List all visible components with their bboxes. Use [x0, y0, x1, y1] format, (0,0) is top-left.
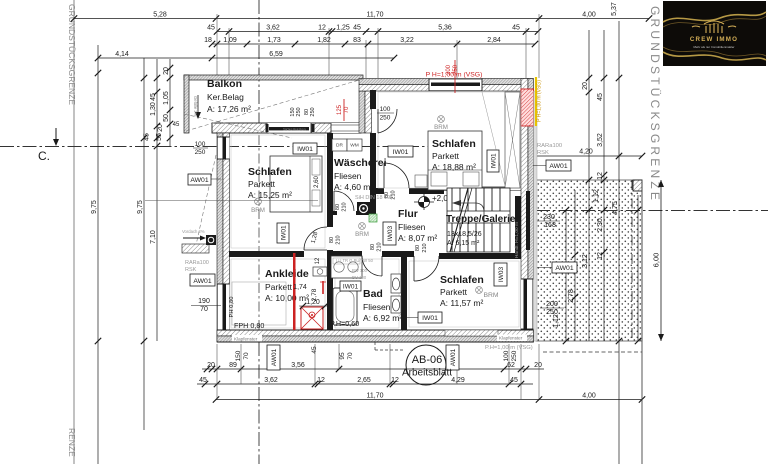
- vertical dim 9,75 at x=98: [91, 45, 101, 464]
- room finish outline Ankleide: [231, 259, 325, 328]
- svg-text:Parkett: Parkett: [440, 287, 468, 297]
- svg-text:2,84: 2,84: [487, 37, 501, 44]
- BRM symbol Schlafen2: [434, 116, 448, 131]
- terrace dashed line below: [543, 351, 642, 353]
- svg-text:1,12: 1,12: [553, 314, 560, 328]
- svg-text:80: 80: [329, 237, 335, 243]
- vanity with two sinks: [331, 256, 362, 278]
- svg-text:210: 210: [342, 202, 348, 211]
- svg-text:2,78: 2,78: [568, 289, 575, 303]
- window left wall upper (frame): [217, 137, 230, 160]
- section line vertical x=259 top: [258, 0, 260, 123]
- svg-text:100: 100: [195, 141, 206, 148]
- shaft symbol (black box with circle): [357, 202, 370, 215]
- vertical dim x=604: [597, 30, 607, 341]
- svg-text:1,73: 1,73: [267, 37, 281, 44]
- svg-text:Treppe/Galerie: Treppe/Galerie: [446, 214, 516, 225]
- svg-text:GRUNDSTÜCKSGRENZE: GRUNDSTÜCKSGRENZE: [67, 4, 77, 105]
- door reveal blocks balcony: [266, 124, 315, 132]
- label IW01 Schlafen2 left: [387, 145, 389, 147]
- section line right horizontal: [536, 210, 768, 212]
- svg-text:6,00: 6,00: [652, 253, 661, 268]
- svg-text:250: 250: [546, 309, 558, 316]
- svg-text:80: 80: [370, 244, 376, 250]
- room label Bad: [363, 288, 402, 323]
- label 95/70 rot: [339, 352, 354, 360]
- BRM symbol Schlafen3: [476, 287, 499, 299]
- svg-text:2,60: 2,60: [314, 176, 320, 188]
- svg-text:P.H=1,00 m (VSG): P.H=1,00 m (VSG): [485, 345, 533, 351]
- svg-text:3,56: 3,56: [291, 362, 305, 369]
- stairs break diagonal: [450, 188, 472, 252]
- section line vertical terrace x=632: [631, 180, 633, 341]
- nightstand Schlafen2: [415, 175, 427, 187]
- vertical dim 9,75 at x=144: [137, 58, 151, 430]
- red shower: [301, 307, 323, 329]
- toilet 2: [391, 296, 401, 313]
- door Schlafen3 (arc): [414, 256, 439, 281]
- section line C arrow: [53, 128, 59, 146]
- stairs top edge line: [440, 187, 521, 191]
- label Klapfenster right: [497, 335, 527, 342]
- dimension chain top row3 18/1,09/1,73/1,82/83/3,22/2,84: [204, 37, 538, 47]
- svg-text:GRUNDSTÜCKSGRENZE: GRUNDSTÜCKSGRENZE: [648, 6, 662, 203]
- svg-text:Schlafen: Schlafen: [440, 274, 484, 286]
- BRM symbol Flur: [355, 223, 369, 238]
- svg-text:A: 11,57 m²: A: 11,57 m²: [440, 298, 483, 308]
- wall right red section (VSG): [521, 89, 534, 126]
- svg-text:20: 20: [207, 362, 215, 369]
- svg-text:125: 125: [337, 104, 343, 115]
- label 190/70 left: [191, 298, 221, 313]
- door Bad (arc): [362, 256, 382, 276]
- svg-text:BRM: BRM: [251, 207, 265, 214]
- svg-text:100: 100: [380, 106, 391, 113]
- BRM symbol Schlafen1: [251, 198, 265, 214]
- gallery glazing bar right: [526, 191, 530, 250]
- svg-text:13x18,5/26: 13x18,5/26: [447, 231, 482, 238]
- door size 80/210 Schlafen1: [329, 235, 342, 244]
- svg-text:2,65: 2,65: [357, 377, 371, 384]
- svg-text:2,30: 2,30: [597, 218, 604, 232]
- svg-text:RARa100: RARa100: [537, 143, 562, 149]
- label IW03 Flur side: [383, 222, 396, 245]
- svg-text:Bad: Bad: [363, 288, 383, 300]
- svg-text:45: 45: [597, 93, 604, 101]
- label RARa100 RSK right: [537, 143, 562, 156]
- label 230/168: [536, 214, 560, 229]
- room finish outline Schlafen1: [231, 135, 325, 248]
- dimension chain top row4 4,14 / 6,59: [95, 51, 397, 61]
- void diagonal line: [482, 92, 505, 186]
- wardrobe outline Ankleide: [232, 282, 286, 325]
- dimension chain top row2 45/3,62/12/1,25/45: [207, 24, 541, 34]
- toilet 1: [391, 274, 401, 293]
- svg-text:Fliesen: Fliesen: [334, 171, 362, 181]
- room label Treppe/Galerie: [446, 214, 516, 247]
- svg-text:70: 70: [347, 352, 354, 360]
- svg-text:Schlafen: Schlafen: [248, 166, 292, 178]
- label IW01 mid box: [295, 140, 297, 142]
- svg-text:RENZE: RENZE: [67, 428, 77, 457]
- door size 80/210 Flur-Bad: [370, 242, 383, 251]
- svg-text:IW01: IW01: [422, 315, 438, 322]
- window balcony door 269-309: [267, 123, 311, 133]
- room label Flur: [398, 208, 437, 243]
- svg-text:Ankleide: Ankleide: [265, 268, 309, 280]
- svg-text:Arbeitsblatt: Arbeitsblatt: [402, 368, 452, 379]
- svg-text:AW01: AW01: [450, 348, 457, 366]
- red fitting mark: [320, 281, 326, 294]
- window right wall (frame): [521, 279, 534, 330]
- dimension chain bottom rowC 11,70 / 4,00: [213, 392, 645, 402]
- svg-text:WM: WM: [350, 143, 359, 149]
- svg-text:12: 12: [597, 172, 604, 180]
- label AW01 bottom right vert: [446, 345, 459, 370]
- svg-text:Mehr als nur Immobilienmakler: Mehr als nur Immobilienmakler: [693, 45, 734, 49]
- canopy hatched band left: [182, 229, 216, 253]
- dimension chain bottom rowB 45/3,62/12/2,65/12/4,29/45: [197, 377, 533, 387]
- wall V2 corridor part: [370, 190, 376, 215]
- window label 100/250 left: [193, 141, 208, 156]
- wall balcony left rail: [184, 75, 189, 133]
- terrace stipple area: [536, 180, 642, 341]
- label 100/250 bottom rot: [503, 350, 518, 361]
- door size 80/210 Waescherei: [335, 202, 348, 211]
- svg-text:210: 210: [377, 242, 383, 251]
- svg-text:45: 45: [353, 24, 361, 31]
- leader line y=200: [145, 200, 318, 202]
- wall V2 upper stub: [370, 90, 376, 109]
- red wall Ankleide: [293, 253, 296, 330]
- svg-text:4,20: 4,20: [579, 149, 593, 156]
- red dim 200/250 top window: [446, 60, 459, 93]
- section line vertical x=259 bottom: [258, 342, 260, 464]
- window balcony 333-358 (new, red 125/70): [331, 123, 360, 133]
- door label 100/250 Schlafen2: [377, 106, 394, 122]
- svg-text:AW01: AW01: [193, 278, 211, 285]
- svg-text:50: 50: [163, 114, 170, 122]
- label 200/250 terrace: [540, 301, 564, 316]
- room finish outline Schlafen3: [409, 261, 519, 327]
- logo crew inno box: [663, 1, 766, 66]
- label IW01 Schlafen3: [404, 312, 442, 323]
- svg-text:AW01: AW01: [271, 348, 278, 366]
- svg-text:PH 0,80: PH 0,80: [229, 297, 235, 318]
- label IW01 in Bad: [340, 281, 361, 291]
- svg-text:250: 250: [296, 107, 302, 116]
- wall balcony top rail: [184, 75, 363, 80]
- wall right outer cladding strip: [534, 91, 538, 341]
- label AW01 bottom left vert: [267, 345, 280, 370]
- wall stub stairs right: [515, 196, 521, 253]
- svg-text:95: 95: [339, 352, 346, 360]
- vertical dim x=638: [635, 195, 641, 344]
- svg-text:4,00: 4,00: [582, 11, 596, 18]
- svg-text:DU 100: DU 100: [352, 275, 367, 280]
- label AW01 left lower: [190, 274, 215, 286]
- svg-text:A: 10,00 m²: A: 10,00 m²: [265, 293, 309, 303]
- svg-text:FPH 0,80: FPH 0,80: [234, 321, 264, 330]
- label IW01 on section line: [293, 143, 317, 154]
- terrace pillar top right: [633, 180, 642, 191]
- label IW01 Schlafen2 vertical: [487, 150, 499, 172]
- room label Schlafen3: [440, 274, 484, 308]
- bathtub: [333, 288, 357, 325]
- svg-text:CREW IMMO: CREW IMMO: [690, 36, 738, 43]
- svg-text:70: 70: [344, 106, 350, 113]
- green hatched square: [369, 214, 377, 222]
- svg-text:11,70: 11,70: [367, 392, 384, 399]
- svg-text:2,78: 2,78: [311, 288, 318, 301]
- svg-text:Klapfenster: Klapfenster: [234, 337, 258, 342]
- wall right (x521-533.5): [521, 79, 534, 343]
- wall bottom (y330-342): [217, 330, 534, 342]
- svg-text:A: 8,07 m²: A: 8,07 m²: [398, 233, 437, 243]
- label IW01 Waescherei: [388, 146, 413, 157]
- room finish outline Bad: [335, 259, 399, 328]
- door Schlafen1 (arc): [304, 227, 327, 250]
- property line left (Grundstuecksgrenze): [73, 0, 75, 464]
- wardrobe Schlafen2 (X-rect): [505, 92, 520, 188]
- room label Schlafen1: [248, 166, 292, 200]
- svg-text:Wäscherei: Wäscherei: [334, 157, 387, 169]
- stairs walking line with arrow: [452, 200, 484, 252]
- svg-text:C.: C.: [38, 149, 50, 163]
- room label Schlafen2: [432, 138, 476, 172]
- svg-text:55: 55: [156, 133, 163, 141]
- balcony window size labels 80/250: [304, 107, 316, 116]
- svg-text:45: 45: [512, 24, 520, 31]
- grey micro text bath: [336, 258, 374, 280]
- vertical dim x=589: [582, 30, 600, 341]
- room label Waescherei: [334, 157, 387, 192]
- bed Schlafen2 with label block: [428, 131, 482, 190]
- svg-text:IW01: IW01: [343, 284, 359, 291]
- svg-text:12: 12: [597, 252, 604, 260]
- svg-text:6,59: 6,59: [269, 51, 283, 58]
- svg-text:5,36: 5,36: [438, 24, 452, 31]
- svg-text:3,52: 3,52: [597, 133, 604, 147]
- svg-text:1,05: 1,05: [163, 91, 170, 105]
- svg-text:P.H=0,60: P.H=0,60: [330, 319, 359, 328]
- door Waescherei (arc): [334, 191, 354, 211]
- svg-text:Gefälle 2%: Gefälle 2%: [193, 96, 198, 117]
- svg-text:5,37: 5,37: [611, 2, 618, 16]
- svg-text:3,22: 3,22: [400, 37, 414, 44]
- balcony dashed diagonal 1: [186, 78, 366, 131]
- wall top (y78.5-91): [359, 79, 533, 92]
- wall V4 Ankleide/Bad: [327, 257, 333, 330]
- svg-text:45: 45: [199, 377, 207, 384]
- svg-text:RSK: RSK: [185, 267, 197, 273]
- svg-text:210: 210: [336, 235, 342, 244]
- vertical dim x=566: [553, 207, 569, 344]
- svg-text:RSK: RSK: [537, 150, 549, 156]
- svg-text:Parkett: Parkett: [248, 179, 276, 189]
- label AW01 right: [533, 160, 571, 171]
- balcony dashed roof edge left: [196, 155, 216, 245]
- label 150/70 rot: [235, 350, 250, 361]
- svg-text:80: 80: [415, 245, 421, 251]
- label Klapfenster left: [232, 335, 262, 342]
- label AW01 terrace: [536, 262, 577, 273]
- door size 80/210 arc B: [384, 190, 397, 199]
- svg-text:Schlafen: Schlafen: [432, 138, 476, 150]
- svg-text:Klapfenster: Klapfenster: [499, 336, 523, 341]
- bed Schlafen1: [270, 156, 322, 212]
- window sill band Schlafen3 bottom: [445, 330, 498, 336]
- door Schlafen2 top (arc): [378, 109, 397, 133]
- svg-text:4,00: 4,00: [582, 392, 596, 399]
- svg-text:70: 70: [200, 306, 208, 313]
- svg-text:12: 12: [391, 377, 399, 384]
- vertical dim chain x=157: [150, 59, 163, 341]
- yellow VSG line right wall: [535, 77, 537, 126]
- wall H2 Waescherei bottom: [333, 211, 370, 215]
- svg-text:230: 230: [543, 214, 555, 221]
- svg-text:Fliesen: Fliesen: [363, 302, 391, 312]
- door arc B lower: [384, 163, 409, 188]
- svg-text:12: 12: [317, 377, 325, 384]
- svg-text:12: 12: [318, 24, 326, 31]
- svg-text:Handl. H=1,00 m: Handl. H=1,00 m: [514, 222, 520, 258]
- svg-text:Fliesen: Fliesen: [398, 222, 426, 232]
- svg-text:AW01: AW01: [190, 177, 208, 184]
- svg-text:250: 250: [310, 107, 316, 116]
- dimension chain top row1 5,28 / 11,70 / 4,00: [71, 11, 652, 21]
- svg-text:18: 18: [204, 37, 212, 44]
- label IW01 Schlafen1 (rotated box): [277, 223, 289, 243]
- wall V2 mid: [370, 133, 376, 190]
- svg-text:12: 12: [315, 257, 321, 264]
- extension lines below building: [217, 344, 539, 399]
- svg-text:AW01: AW01: [555, 265, 573, 272]
- svg-text:A: 18,88 m²: A: 18,88 m²: [432, 162, 476, 172]
- svg-text:1,25: 1,25: [336, 24, 350, 31]
- svg-text:80: 80: [335, 204, 341, 210]
- svg-text:P H=1,00 m (VSG): P H=1,00 m (VSG): [537, 80, 543, 122]
- svg-text:AW01: AW01: [549, 163, 567, 170]
- svg-text:IW01: IW01: [393, 149, 409, 156]
- svg-text:20: 20: [157, 124, 164, 132]
- svg-text:100: 100: [503, 350, 510, 361]
- svg-text:Parkett: Parkett: [432, 151, 460, 161]
- wall H5 Schlafen2 bottom: [376, 188, 444, 194]
- svg-text:A: 15,25 m²: A: 15,25 m²: [248, 190, 292, 200]
- svg-text:A: 6,15 m²: A: 6,15 m²: [447, 240, 480, 247]
- svg-text:20: 20: [582, 82, 589, 90]
- red window dim line 125/70: [337, 99, 350, 121]
- dim 1,20 shower: [299, 299, 328, 309]
- svg-text:190: 190: [198, 298, 210, 305]
- svg-text:4,14: 4,14: [115, 51, 129, 58]
- svg-text:A: 17,26 m²: A: 17,26 m²: [207, 104, 251, 114]
- svg-text:83: 83: [353, 37, 361, 44]
- svg-text:4,75: 4,75: [612, 201, 619, 215]
- svg-text:45: 45: [143, 133, 150, 141]
- svg-text:LU TR G BU/TW 50: LU TR G BU/TW 50: [336, 258, 374, 263]
- svg-text:3,62: 3,62: [266, 24, 280, 31]
- svg-text:Ker.Belag: Ker.Belag: [207, 92, 244, 102]
- section line C horizontal: [0, 146, 445, 148]
- svg-text:BRM: BRM: [355, 231, 369, 238]
- dimension chain bottom rowA 20/89/3,56/62/20: [202, 362, 544, 372]
- label IW03 Schlafen3: [494, 263, 507, 286]
- svg-text:A: 4,60 m²: A: 4,60 m²: [334, 182, 373, 192]
- svg-text:Vordach 2%: Vordach 2%: [182, 229, 205, 234]
- wall left (x217-229.5): [217, 133, 230, 342]
- svg-text:45: 45: [150, 93, 157, 101]
- svg-text:Flur: Flur: [398, 208, 418, 220]
- svg-text:P H=1,00 m (VSG): P H=1,00 m (VSG): [426, 72, 483, 79]
- balcony down arrow: [193, 95, 201, 119]
- svg-text:45: 45: [173, 122, 180, 128]
- window left wall lower (frame): [217, 284, 230, 333]
- svg-text:7,10: 7,10: [150, 230, 157, 244]
- svg-text:1,74: 1,74: [293, 284, 307, 291]
- dashed leader to AB-06: [375, 342, 404, 350]
- svg-text:3,12: 3,12: [582, 254, 589, 268]
- wall balcony back (y123-133): [212, 123, 361, 133]
- svg-text:250: 250: [511, 350, 518, 361]
- svg-text:DR: DR: [336, 143, 343, 149]
- svg-text:89: 89: [229, 362, 237, 369]
- vertical dim x=619 with 5,37: [611, 2, 622, 464]
- svg-text:150: 150: [235, 350, 242, 361]
- svg-text:Parkett: Parkett: [265, 282, 293, 292]
- svg-text:IW03: IW03: [387, 226, 394, 242]
- svg-text:9,75: 9,75: [137, 200, 144, 214]
- svg-text:210: 210: [391, 190, 397, 199]
- svg-text:BRM: BRM: [483, 292, 498, 299]
- dim 6,00 vertical with arrows: [652, 180, 665, 341]
- wall V1 Schlafen1/Waescherei: [327, 133, 333, 227]
- svg-text:70: 70: [243, 352, 250, 360]
- svg-text:45: 45: [510, 377, 518, 384]
- svg-text:Balkon: Balkon: [207, 78, 242, 90]
- AB-06 worksheet circle: [402, 345, 452, 385]
- terrace right edge x=642: [641, 180, 643, 464]
- balcony door size labels 150/250: [290, 107, 302, 116]
- svg-text:IW03: IW03: [498, 267, 505, 283]
- svg-text:45: 45: [311, 346, 318, 354]
- svg-text:250: 250: [380, 115, 391, 122]
- svg-text:20: 20: [534, 362, 542, 369]
- wall top connector x359-371: [359, 91, 372, 133]
- svg-text:A: 6,92 m²: A: 6,92 m²: [363, 313, 402, 323]
- wall V1 stub below door: [327, 250, 333, 257]
- svg-text:IW01: IW01: [297, 146, 313, 153]
- level mark +2,05: [414, 194, 453, 210]
- section line vertical x=259 mid dashed: [258, 135, 260, 342]
- svg-text:IW01: IW01: [281, 225, 288, 241]
- room label Balkon: [207, 78, 251, 114]
- cabinet icon Ankleide: [313, 267, 327, 276]
- svg-text:BRM: BRM: [434, 124, 448, 131]
- svg-text:Sickerkasten: Sickerkasten: [283, 127, 306, 132]
- svg-text:AB-06: AB-06: [412, 354, 443, 366]
- wall H3/H4 main middle wall: [229, 251, 521, 259]
- label RARa100 RSK left: [185, 260, 209, 273]
- vertical dim chain x=170: [157, 59, 173, 146]
- window top wall 429-482: [429, 79, 482, 92]
- svg-text:20: 20: [163, 67, 170, 75]
- svg-text:3,62: 3,62: [264, 377, 278, 384]
- svg-text:4,29: 4,29: [451, 377, 465, 384]
- svg-text:9,75: 9,75: [91, 200, 98, 214]
- wall V3 Bad/Schlafen3: [401, 257, 407, 330]
